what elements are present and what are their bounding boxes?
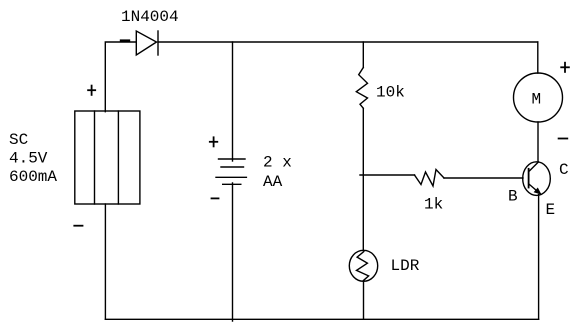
solar cell SC <box>75 111 140 204</box>
svg-text:E: E <box>546 201 556 219</box>
wire 10k resistor to LDR <box>362 108 364 250</box>
svg-text:600mA: 600mA <box>9 168 57 186</box>
LDR photoresistor <box>349 250 377 281</box>
svg-text:1N4004: 1N4004 <box>121 8 179 26</box>
svg-text:B: B <box>508 188 518 206</box>
resistor 1k <box>415 170 445 187</box>
node base-branch junction / wire to 1k <box>360 174 415 176</box>
wire solar cell bottom to bottom rail <box>104 204 106 319</box>
wire 10k branch top (top rail down to resistor) <box>362 42 364 68</box>
wire battery top (top rail to battery) <box>232 42 234 161</box>
plus sign at solar cell <box>88 86 95 95</box>
wire motor to transistor collector <box>537 122 539 162</box>
minus polarity dash on wire before diode <box>121 39 129 41</box>
svg-text:SC: SC <box>9 131 28 149</box>
plus sign at motor <box>561 63 569 72</box>
motor M1 <box>514 73 563 122</box>
label SC 4.5V 600mA <box>9 131 57 186</box>
svg-text:M: M <box>532 91 542 109</box>
diode D1 1N4004 <box>136 31 158 55</box>
wire top rail (diode cathode to right corner) <box>158 41 538 43</box>
svg-text:2 x: 2 x <box>263 154 292 172</box>
wire 1k to transistor base <box>444 177 523 179</box>
battery B1 2xAA plates <box>216 159 246 184</box>
svg-text:1k: 1k <box>424 196 443 214</box>
svg-text:10k: 10k <box>376 84 405 102</box>
wire battery bottom to bottom rail <box>232 183 234 321</box>
wire bottom rail <box>105 318 538 320</box>
transistor Q1 <box>523 162 551 196</box>
wire LDR bottom to bottom rail <box>363 281 365 319</box>
wire top-left segment (solar + to diode anode) <box>105 42 136 112</box>
svg-text:C: C <box>559 161 569 179</box>
svg-text:LDR: LDR <box>391 257 420 275</box>
minus sign at motor <box>559 138 568 140</box>
resistor 10k <box>356 68 367 109</box>
label 2 x AA <box>263 154 292 192</box>
minus sign at battery <box>212 197 219 199</box>
svg-text:4.5V: 4.5V <box>9 150 48 168</box>
svg-text:AA: AA <box>263 173 283 191</box>
wire transistor emitter down to bottom rail <box>538 195 540 320</box>
plus sign at battery <box>210 137 218 146</box>
wire top rail corner down to motor <box>537 42 539 73</box>
minus sign at solar cell <box>74 225 82 227</box>
